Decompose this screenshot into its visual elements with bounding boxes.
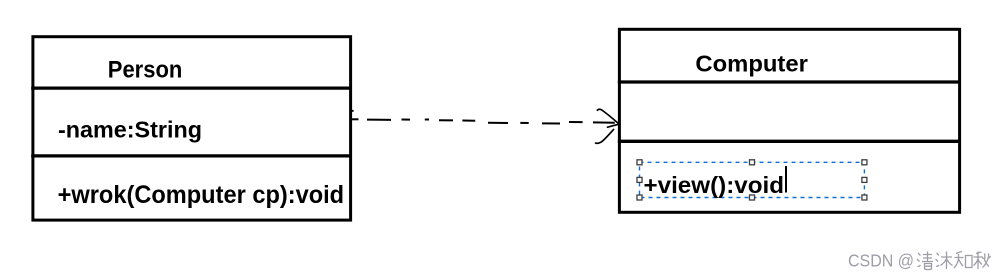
arrowhead: [596, 109, 619, 143]
wire dash 2: [367, 119, 391, 121]
watermark hanzi mu 沐: [936, 252, 953, 270]
wire dash 8: [520, 122, 528, 124]
text caret: [785, 166, 787, 193]
svg-text:Person: Person: [108, 57, 183, 84]
watermark hanzi qiu 秋: [974, 252, 991, 270]
wire dash 4: [425, 119, 429, 121]
svg-text:+view():void: +view():void: [644, 172, 785, 198]
wire dash 7: [488, 122, 508, 124]
class box Person: [33, 37, 351, 220]
Person title divider: [31, 86, 352, 89]
wire dash 6: [462, 120, 475, 122]
Computer attribute/method divider: [618, 140, 961, 143]
wire dash 11: [593, 121, 615, 123]
watermark hanzi zhi 知: [954, 252, 972, 269]
wire dash 5: [439, 119, 453, 121]
svg-text:CSDN @: CSDN @: [848, 251, 914, 271]
Computer title divider: [618, 80, 961, 83]
watermark hanzi qing 清: [917, 252, 933, 270]
wire dash 3: [402, 119, 411, 121]
stray dot at arrow start: [352, 110, 354, 112]
svg-text:-name:String: -name:String: [58, 117, 202, 143]
svg-text:Computer: Computer: [695, 51, 808, 77]
selection box: [640, 162, 865, 197]
wire dash 9: [542, 122, 560, 124]
wire dash 10: [569, 121, 583, 123]
wire dash 1: [352, 118, 359, 120]
class box Computer: [619, 29, 959, 212]
Person attribute/method divider: [31, 154, 352, 157]
selection handles: [637, 160, 867, 200]
svg-text:+wrok(Computer cp):void: +wrok(Computer cp):void: [58, 182, 345, 209]
dependency arrow dashed wire: [352, 119, 615, 123]
